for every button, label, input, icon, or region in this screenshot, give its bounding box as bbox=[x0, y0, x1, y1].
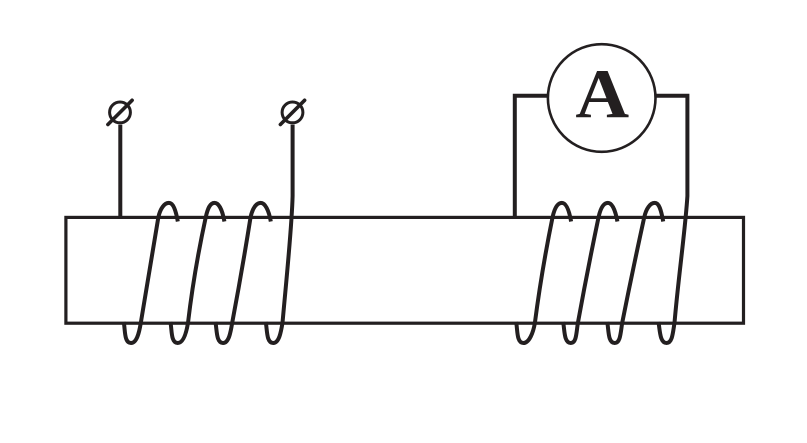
coil L2 turn 4 and wire to ammeter right terminal bbox=[655, 96, 687, 343]
coil L1 turn 1 bbox=[124, 203, 178, 343]
terminal T2 slash bbox=[280, 100, 304, 124]
terminal T1 circle bbox=[110, 102, 131, 123]
coil L2 turn 2 bbox=[563, 203, 617, 343]
coil L2 turn 1 bbox=[516, 203, 571, 343]
terminal T2 circle bbox=[282, 102, 303, 123]
coil L1 turn 2 bbox=[170, 203, 224, 343]
coil L2 turn 3 bbox=[607, 203, 663, 343]
iron core bar bbox=[66, 217, 744, 323]
terminal T1 slash bbox=[108, 100, 132, 124]
svg-text:A: A bbox=[575, 56, 629, 133]
coil L1 turn 4 and lead wire up to terminal T2 bbox=[266, 125, 293, 343]
wire: lead from terminal T1 down to core bbox=[118, 125, 122, 219]
wire: core to ammeter left terminal bbox=[515, 96, 549, 219]
ammeter A1 circle bbox=[548, 44, 656, 152]
coil L1 turn 3 bbox=[215, 203, 270, 343]
